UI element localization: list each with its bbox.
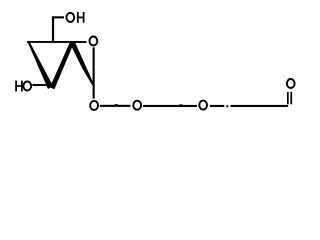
label HO (C3 hydroxyl)	[15, 81, 23, 92]
chain oxygen O2	[133, 101, 141, 110]
bond C-CHO (long horizontal to carbonyl)	[231, 105, 289, 107]
bond HO-C3	[32, 84, 49, 86]
bond O1-CH2-O2 (horizontal)	[100, 105, 131, 107]
bond C6-OH (horizontal bond to OH)	[52, 16, 64, 18]
ring oxygen O	[90, 37, 98, 46]
vertex nub CH2 between O1 and O2	[115, 104, 118, 105]
bond C2-C5-O (top horizontal line of ring)	[27, 41, 87, 43]
double bond C=O line b	[290, 92, 292, 104]
bond O2-CH2-O3 (horizontal)	[143, 105, 197, 107]
vertex nub CH2 between O2 and O3	[179, 104, 183, 105]
carbonyl oxygen O	[287, 79, 295, 88]
bold bond C3-C4	[50, 42, 74, 89]
chain oxygen O3	[199, 101, 207, 110]
wedge bond C2-C3 (thin top to thick bottom)	[28, 42, 54, 89]
label OH (hydroxymethyl oxygen)	[66, 13, 74, 22]
glycosidic oxygen O1	[90, 101, 98, 110]
bond C5-C6 (vertical stem of CH2OH)	[52, 16, 54, 43]
bond Oring-C1-O1 (vertical line)	[93, 47, 95, 98]
wedge bond C4-C1 (thick top to point at C1)	[69, 42, 94, 86]
double bond C=O line a	[287, 92, 289, 104]
bond O3-C (short stub)	[210, 105, 224, 107]
vertex dot in chain	[226, 105, 228, 107]
